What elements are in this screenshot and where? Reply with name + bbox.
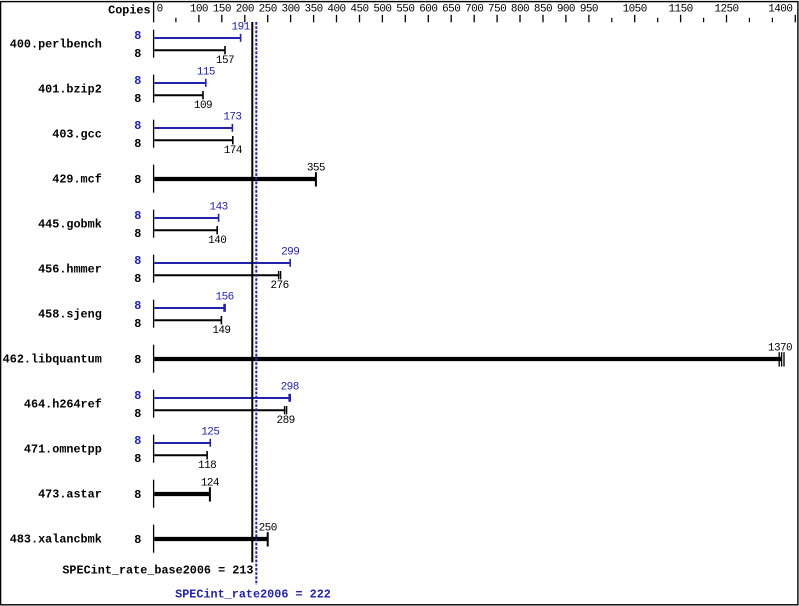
svg-text:1250: 1250 bbox=[714, 3, 738, 15]
svg-text:115: 115 bbox=[197, 67, 215, 79]
svg-text:125: 125 bbox=[201, 427, 219, 439]
svg-text:8: 8 bbox=[134, 389, 141, 403]
svg-text:900: 900 bbox=[557, 3, 575, 15]
svg-text:276: 276 bbox=[271, 280, 289, 292]
svg-text:8: 8 bbox=[134, 47, 141, 61]
svg-text:Copies: Copies bbox=[108, 3, 150, 17]
svg-text:458.sjeng: 458.sjeng bbox=[38, 307, 102, 321]
svg-text:8: 8 bbox=[134, 254, 141, 268]
svg-text:8: 8 bbox=[134, 209, 141, 223]
svg-text:950: 950 bbox=[580, 3, 598, 15]
svg-text:SPECint_rate2006 = 222: SPECint_rate2006 = 222 bbox=[175, 588, 331, 602]
svg-text:124: 124 bbox=[201, 478, 220, 490]
svg-text:8: 8 bbox=[134, 353, 141, 367]
svg-text:8: 8 bbox=[134, 434, 141, 448]
svg-text:445.gobmk: 445.gobmk bbox=[38, 217, 102, 231]
svg-text:8: 8 bbox=[134, 119, 141, 133]
svg-text:355: 355 bbox=[307, 163, 325, 175]
svg-text:174: 174 bbox=[224, 145, 243, 157]
svg-text:8: 8 bbox=[134, 488, 141, 502]
svg-text:500: 500 bbox=[373, 3, 391, 15]
svg-text:400.perlbench: 400.perlbench bbox=[10, 37, 102, 51]
svg-text:8: 8 bbox=[134, 272, 141, 286]
svg-text:350: 350 bbox=[305, 3, 323, 15]
svg-text:550: 550 bbox=[396, 3, 414, 15]
svg-text:456.hmmer: 456.hmmer bbox=[38, 262, 102, 276]
svg-text:650: 650 bbox=[442, 3, 460, 15]
svg-text:149: 149 bbox=[212, 325, 230, 337]
svg-text:299: 299 bbox=[281, 247, 299, 259]
svg-text:700: 700 bbox=[465, 3, 483, 15]
svg-text:8: 8 bbox=[134, 317, 141, 331]
svg-text:800: 800 bbox=[511, 3, 529, 15]
svg-text:0: 0 bbox=[157, 3, 163, 15]
svg-text:140: 140 bbox=[208, 235, 226, 247]
svg-text:401.bzip2: 401.bzip2 bbox=[38, 82, 102, 96]
svg-text:1150: 1150 bbox=[668, 3, 692, 15]
svg-text:200: 200 bbox=[236, 3, 254, 15]
svg-text:8: 8 bbox=[134, 407, 141, 421]
svg-text:8: 8 bbox=[134, 29, 141, 43]
svg-text:483.xalancbmk: 483.xalancbmk bbox=[10, 532, 102, 546]
svg-text:1050: 1050 bbox=[623, 3, 647, 15]
svg-text:250: 250 bbox=[259, 523, 277, 535]
svg-text:403.gcc: 403.gcc bbox=[52, 127, 102, 141]
svg-text:850: 850 bbox=[534, 3, 552, 15]
svg-text:464.h264ref: 464.h264ref bbox=[24, 397, 102, 411]
svg-text:750: 750 bbox=[488, 3, 506, 15]
svg-text:1400: 1400 bbox=[768, 3, 792, 15]
svg-text:289: 289 bbox=[277, 415, 295, 427]
svg-text:118: 118 bbox=[198, 460, 216, 472]
svg-text:429.mcf: 429.mcf bbox=[52, 172, 102, 186]
svg-text:473.astar: 473.astar bbox=[38, 487, 102, 501]
svg-text:250: 250 bbox=[259, 3, 277, 15]
svg-text:400: 400 bbox=[327, 3, 345, 15]
svg-text:150: 150 bbox=[213, 3, 231, 15]
svg-text:100: 100 bbox=[190, 3, 208, 15]
svg-text:143: 143 bbox=[210, 202, 228, 214]
svg-text:157: 157 bbox=[216, 55, 234, 67]
svg-text:8: 8 bbox=[134, 227, 141, 241]
svg-text:298: 298 bbox=[281, 382, 299, 394]
svg-text:462.libquantum: 462.libquantum bbox=[3, 352, 102, 366]
svg-text:8: 8 bbox=[134, 299, 141, 313]
svg-text:8: 8 bbox=[134, 92, 141, 106]
svg-text:8: 8 bbox=[134, 452, 141, 466]
svg-text:191: 191 bbox=[232, 22, 251, 34]
svg-text:1370: 1370 bbox=[768, 343, 792, 355]
svg-text:109: 109 bbox=[194, 100, 212, 112]
svg-text:SPECint_rate_base2006 = 213: SPECint_rate_base2006 = 213 bbox=[62, 563, 253, 577]
svg-text:8: 8 bbox=[134, 137, 141, 151]
svg-text:173: 173 bbox=[223, 112, 241, 124]
svg-text:471.omnetpp: 471.omnetpp bbox=[24, 442, 102, 456]
svg-text:8: 8 bbox=[134, 173, 141, 187]
svg-text:156: 156 bbox=[216, 292, 234, 304]
svg-text:8: 8 bbox=[134, 74, 141, 88]
svg-text:8: 8 bbox=[134, 533, 141, 547]
svg-text:450: 450 bbox=[350, 3, 368, 15]
svg-text:300: 300 bbox=[282, 3, 300, 15]
svg-text:600: 600 bbox=[419, 3, 437, 15]
